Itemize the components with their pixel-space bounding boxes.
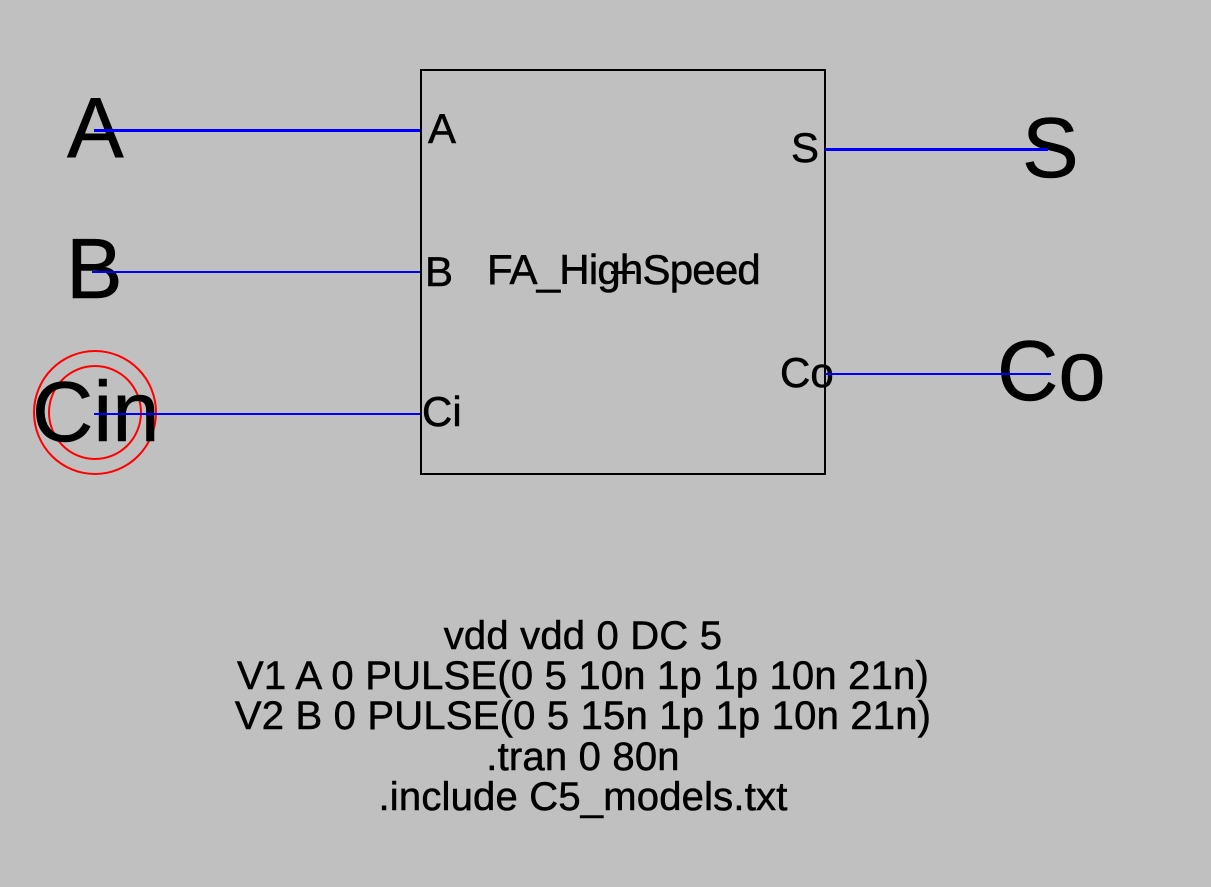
text anchor dash on FA_HighSpeed: [611, 271, 635, 274]
pin label S: [791, 127, 819, 169]
wire A: [94, 129, 420, 132]
symbol name text FA_HighSpeed: [487, 249, 760, 291]
net label A: [67, 86, 124, 171]
wire Cin: [94, 413, 420, 416]
spice directive text: [83, 616, 1083, 817]
selection marker outer circle (red): [33, 350, 157, 475]
wire Co: [825, 373, 1051, 376]
pin label Co: [780, 352, 834, 394]
net label S: [1022, 106, 1079, 191]
net label Co: [997, 329, 1106, 414]
wire B: [92, 271, 420, 274]
pin label Ci: [422, 391, 462, 433]
net label B: [66, 227, 123, 312]
pin label B: [425, 251, 453, 293]
subcircuit box U1 FA_HighSpeed: [420, 69, 826, 475]
selection marker inner circle (red): [48, 365, 142, 460]
wire S: [825, 148, 1048, 151]
pin label A: [428, 108, 456, 150]
net label Cin: [32, 370, 160, 455]
